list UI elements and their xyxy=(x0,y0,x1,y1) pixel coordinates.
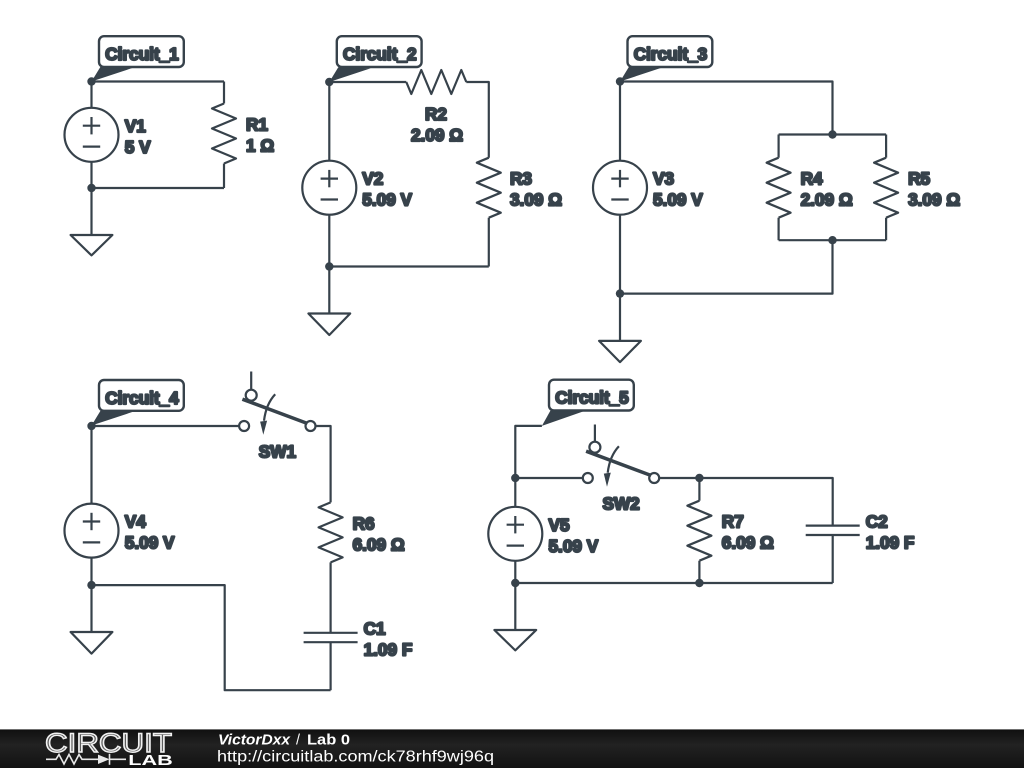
svg-text:LAB: LAB xyxy=(128,753,173,768)
wire top-left circuit2 xyxy=(329,81,406,83)
node bottom-left circuit5 xyxy=(511,579,519,587)
switch SW2 xyxy=(583,425,659,514)
label Circuit_5 xyxy=(542,380,634,426)
node R7-bottom circuit5 xyxy=(695,579,703,587)
voltage source V5 xyxy=(488,478,598,583)
node top-left circuit2 xyxy=(325,78,333,86)
switch SW1 xyxy=(239,372,315,462)
label Circuit_4 xyxy=(92,380,184,426)
resistor R4 xyxy=(767,135,853,241)
resistor R5 xyxy=(874,135,960,241)
label Circuit_3 xyxy=(620,36,712,81)
svg-text:V3: V3 xyxy=(653,169,674,189)
svg-text:5.09 V: 5.09 V xyxy=(125,533,175,553)
svg-text:V5: V5 xyxy=(549,515,570,535)
svg-text:3.09 Ω: 3.09 Ω xyxy=(510,190,562,210)
wire parallel bottom bar xyxy=(779,239,887,241)
voltage source V4 xyxy=(65,426,176,585)
capacitor C1 xyxy=(304,619,413,691)
node top-left circuit3 xyxy=(616,77,624,85)
node bottom-left circuit3 xyxy=(616,289,624,297)
voltage source V2 xyxy=(302,82,412,267)
svg-text:Circuit_3: Circuit_3 xyxy=(634,44,708,64)
svg-text:Circuit_2: Circuit_2 xyxy=(343,44,417,64)
svg-text:Circuit_4: Circuit_4 xyxy=(105,388,179,408)
svg-text:R3: R3 xyxy=(510,169,532,189)
ground circuit3 xyxy=(599,294,641,363)
svg-text:SW1: SW1 xyxy=(259,442,297,462)
wire bottom circuit3 xyxy=(620,240,833,293)
resistor R6 xyxy=(319,502,405,632)
svg-text:V1: V1 xyxy=(125,116,146,136)
wire top-right circuit2 xyxy=(466,82,489,158)
svg-text:C2: C2 xyxy=(866,511,888,531)
resistor R1 xyxy=(212,82,274,189)
resistor R2 xyxy=(406,70,466,145)
svg-text:R6: R6 xyxy=(353,513,375,533)
ground circuit1 xyxy=(71,188,113,255)
wire switch-to-R6 circuit4 xyxy=(316,426,331,502)
svg-text:1.09 F: 1.09 F xyxy=(866,532,915,552)
svg-text:5 V: 5 V xyxy=(125,137,151,157)
svg-text:3.09 Ω: 3.09 Ω xyxy=(908,190,960,210)
voltage source V1 xyxy=(65,82,152,189)
svg-text:R7: R7 xyxy=(722,512,744,532)
svg-text:V2: V2 xyxy=(362,169,383,189)
ground circuit5 xyxy=(494,583,536,650)
ground circuit2 xyxy=(308,267,350,336)
resistor R3 xyxy=(477,158,562,267)
svg-text:5.09 V: 5.09 V xyxy=(362,190,412,210)
wire top-left circuit4 xyxy=(92,425,240,427)
node bottom circuit2 xyxy=(325,262,333,270)
svg-text:Lab 0: Lab 0 xyxy=(307,733,350,749)
svg-text:VictorDxx: VictorDxx xyxy=(218,733,291,749)
wire bottom circuit2 xyxy=(329,265,489,267)
wire switch-to-C2 circuit5 xyxy=(659,478,833,526)
voltage source V3 xyxy=(593,82,703,294)
svg-text:C1: C1 xyxy=(364,619,386,639)
wire label-to-junction circuit5 xyxy=(515,426,542,478)
svg-text:SW2: SW2 xyxy=(603,494,640,514)
svg-text:5.09 V: 5.09 V xyxy=(653,190,703,210)
svg-text:R5: R5 xyxy=(908,169,930,189)
label Circuit_1 xyxy=(92,36,184,81)
node parallel-bottom circuit3 xyxy=(828,236,836,244)
svg-text:V4: V4 xyxy=(125,512,146,532)
node A (top-left junction dot) xyxy=(87,77,95,85)
ground circuit4 xyxy=(71,585,113,654)
node top-left circuit4 xyxy=(87,422,95,430)
svg-text:R1: R1 xyxy=(246,115,268,135)
wire top circuit3 xyxy=(620,82,833,135)
wire parallel top bar xyxy=(779,133,887,135)
logo schematic squiggle xyxy=(46,754,126,765)
wire bottom circuit5 xyxy=(515,582,832,584)
resistor R7 xyxy=(687,478,774,583)
capacitor C2 xyxy=(806,511,915,583)
svg-text:1 Ω: 1 Ω xyxy=(246,136,274,156)
wire bottom circuit4 xyxy=(92,585,331,690)
node bottom-left circuit4 xyxy=(87,581,95,589)
svg-text:/: / xyxy=(296,733,300,749)
svg-text:R2: R2 xyxy=(425,104,447,124)
svg-text:R4: R4 xyxy=(801,169,823,189)
node parallel-top circuit3 xyxy=(828,130,836,138)
node R7-top circuit5 xyxy=(695,474,703,482)
svg-text:6.09 Ω: 6.09 Ω xyxy=(353,534,405,554)
wire top circuit1 xyxy=(92,80,225,82)
label Circuit_2 xyxy=(329,36,421,82)
svg-text:http://circuitlab.com/ck78rhf9: http://circuitlab.com/ck78rhf9wj96q xyxy=(217,749,494,766)
node left circuit5 xyxy=(511,474,519,482)
svg-text:5.09 V: 5.09 V xyxy=(549,536,599,556)
svg-text:2.09 Ω: 2.09 Ω xyxy=(801,190,853,210)
svg-text:6.09 Ω: 6.09 Ω xyxy=(722,533,774,553)
svg-text:1.09 F: 1.09 F xyxy=(364,640,413,660)
svg-text:Circuit_5: Circuit_5 xyxy=(555,388,629,408)
node bottom circuit1 xyxy=(87,184,95,192)
svg-text:Circuit_1: Circuit_1 xyxy=(105,44,179,64)
wire left circuit5 xyxy=(515,477,583,479)
svg-text:2.09 Ω: 2.09 Ω xyxy=(411,125,463,145)
wire bottom circuit1 xyxy=(92,187,225,189)
